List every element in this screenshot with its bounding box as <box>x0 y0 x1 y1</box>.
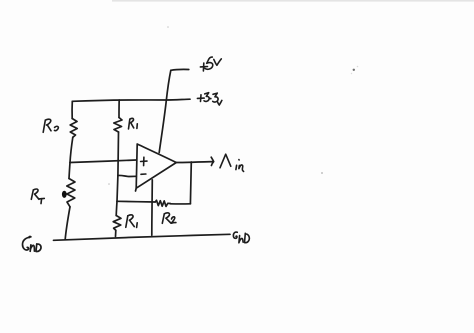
wire second branch (R1 to minus node) <box>117 132 120 176</box>
op-amp - symbol <box>141 173 146 175</box>
wire second branch (minus node down to R2 node) <box>116 176 119 202</box>
wire left branch bottom (RT to GND) <box>65 207 70 240</box>
ground rail <box>54 234 231 240</box>
resistor RT <box>67 179 75 207</box>
label +5V <box>200 57 221 71</box>
label R1 upper <box>129 118 138 129</box>
wire plus-input (left node to op-amp +) <box>70 160 136 163</box>
wire second branch bottom (R1 lower to GND) <box>115 230 117 236</box>
wire second branch (R2 node to R1 lower) <box>115 201 118 215</box>
wire second branch top (+3.3V to R1 upper) <box>118 100 120 118</box>
wire feedback drop from output <box>189 162 192 204</box>
label A_in <box>220 154 244 171</box>
label GND left <box>22 237 41 252</box>
label R1 lower <box>126 215 137 228</box>
resistor R1 upper <box>114 118 122 133</box>
wire left branch middle (RD to + node) <box>70 137 73 162</box>
label +3.3v <box>197 93 222 105</box>
wire left branch (node to RT) <box>69 163 70 179</box>
wire op-amp V- to ground <box>151 180 154 235</box>
wire +3.3V rail <box>72 99 190 101</box>
label RD <box>43 119 58 132</box>
arrowhead A_in <box>211 157 214 165</box>
scan artifact top edge <box>112 0 474 2</box>
paper specks <box>353 69 355 71</box>
thermistor dot <box>62 191 67 198</box>
op-amp + symbol <box>141 157 147 165</box>
resistor RD <box>70 119 77 138</box>
wire +5V vertical drop to op-amp V+ <box>159 70 171 152</box>
op-amp U1 triangle <box>136 144 176 188</box>
wire feedback horizontal left segment (R2 to divider node) <box>117 200 155 203</box>
resistor R2 <box>155 200 170 206</box>
label RT <box>31 189 44 204</box>
label GND right <box>233 232 249 243</box>
wire output to arrow <box>176 161 213 164</box>
wire minus-input (divider node to op-amp -) <box>118 175 136 176</box>
wire feedback horizontal right segment <box>170 203 190 205</box>
label R2 <box>162 213 176 224</box>
wire +5V stub horizontal <box>171 68 189 71</box>
wire left branch top (+3.3V corner down to RD) <box>71 101 73 118</box>
resistor R1 lower <box>113 216 121 231</box>
